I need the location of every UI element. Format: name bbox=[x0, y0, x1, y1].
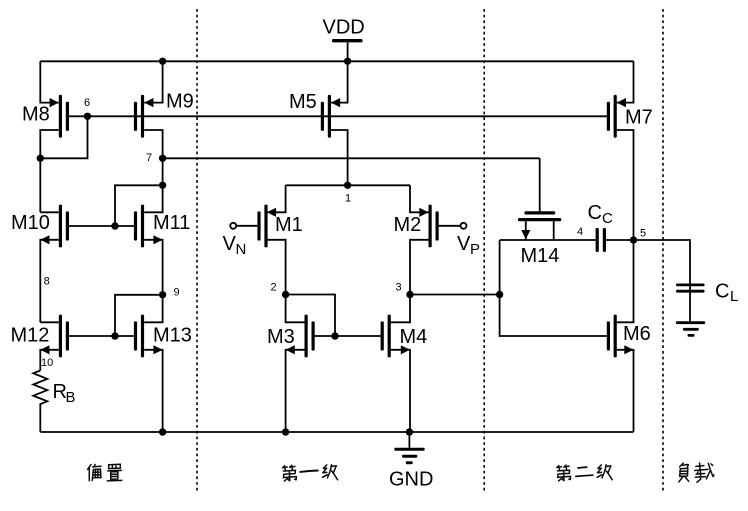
svg-text:N: N bbox=[236, 241, 247, 258]
svg-text:M12: M12 bbox=[11, 325, 50, 347]
junction bottom rail / M3 source bbox=[282, 428, 289, 435]
transistor M6 bbox=[607, 240, 651, 432]
wire VDD top rail bbox=[40, 60, 633, 62]
svg-text:M6: M6 bbox=[623, 323, 651, 345]
junction M8 drain / node 6 / M10 drain bbox=[37, 155, 44, 162]
junction node7/M11 drain/gate link bbox=[159, 182, 166, 189]
wire gate bus (gates of M8 M9 M5 M7) bbox=[69, 115, 608, 117]
svg-text:M13: M13 bbox=[153, 325, 192, 347]
transistor M4 bbox=[381, 295, 428, 433]
section label 第二级 (second stage) bbox=[557, 465, 612, 481]
node 3 junction bbox=[406, 291, 413, 298]
wire node 9 to M12 M13 gates bbox=[115, 295, 163, 336]
transistor M5 bbox=[289, 61, 348, 185]
junction bottom rail / M13 source bbox=[159, 428, 166, 435]
junction bottom rail / M4 source / GND bbox=[406, 428, 413, 435]
junction M10/M11 gates bbox=[111, 222, 118, 229]
svg-text:M1: M1 bbox=[275, 214, 303, 236]
node 2 junction bbox=[282, 291, 289, 298]
ground symbol GND bbox=[389, 432, 433, 491]
wire node 7 down to M11 drain bbox=[144, 158, 162, 212]
junction node3 line / M14-M6 branch bbox=[496, 291, 503, 298]
svg-text:V: V bbox=[457, 233, 471, 255]
svg-text:4: 4 bbox=[577, 226, 583, 238]
transistor M2 bbox=[394, 185, 439, 294]
svg-text:5: 5 bbox=[640, 228, 646, 240]
svg-text:M8: M8 bbox=[22, 104, 50, 126]
svg-text:3: 3 bbox=[396, 282, 402, 294]
capacitor CC bbox=[588, 202, 634, 252]
svg-text:2: 2 bbox=[271, 282, 277, 294]
capacitor CL bbox=[676, 281, 738, 306]
wire link to M10 M11 gates bbox=[115, 185, 163, 226]
svg-text:P: P bbox=[470, 241, 480, 258]
wire branch: node4 down to M6 gate bbox=[500, 240, 607, 336]
transistor M3 bbox=[267, 295, 315, 433]
wire node 2 to M3 M4 gates bbox=[286, 295, 335, 337]
svg-text:7: 7 bbox=[146, 152, 152, 164]
junction M12/M13 gates bbox=[111, 332, 118, 339]
input terminal VN bbox=[223, 223, 258, 258]
svg-text:M11: M11 bbox=[153, 212, 190, 234]
wire node 7 horizontal to M14 gate bbox=[163, 157, 540, 159]
node 1 junction bbox=[344, 182, 351, 189]
input terminal VP bbox=[439, 223, 480, 258]
svg-text:M3: M3 bbox=[267, 326, 295, 348]
transistor M8 bbox=[22, 61, 69, 212]
section label 第一级 (first stage) bbox=[283, 465, 338, 481]
node 6 junction bbox=[84, 113, 91, 120]
svg-text:L: L bbox=[730, 288, 738, 305]
svg-text:M7: M7 bbox=[625, 107, 653, 129]
section label 负载 (load) bbox=[679, 463, 714, 482]
transistor M14 (MOS capacitor) bbox=[518, 158, 561, 267]
transistor M12 bbox=[11, 315, 70, 371]
transistor M10 bbox=[11, 205, 69, 323]
svg-text:8: 8 bbox=[44, 276, 50, 288]
svg-text:GND: GND bbox=[389, 469, 433, 491]
transistor M7 bbox=[607, 61, 653, 240]
junction top rail / M9 source bbox=[159, 58, 166, 65]
wire M12 M13 gate wire bbox=[69, 335, 134, 337]
svg-text:M10: M10 bbox=[11, 212, 50, 234]
svg-text:C: C bbox=[588, 202, 602, 224]
junction M3/M4 gates bbox=[331, 332, 338, 339]
svg-text:C: C bbox=[602, 210, 613, 227]
dashed separator line 3 (second stage / load) bbox=[662, 9, 664, 491]
svg-text:6: 6 bbox=[84, 97, 90, 109]
svg-text:9: 9 bbox=[174, 287, 180, 299]
node 1 wire bbox=[286, 184, 410, 186]
svg-text:M9: M9 bbox=[166, 91, 194, 113]
VDD supply symbol bbox=[323, 17, 365, 62]
svg-text:M14: M14 bbox=[521, 245, 560, 267]
wire bottom ground rail bbox=[40, 431, 633, 433]
dashed separator line 2 (first stage / second stage) bbox=[483, 9, 485, 491]
transistor M13 bbox=[134, 295, 192, 432]
svg-text:M5: M5 bbox=[289, 91, 317, 113]
wire node 6 to M8 drain bbox=[40, 116, 87, 158]
ground symbol at CL bbox=[676, 321, 705, 337]
resistor RB bbox=[33, 371, 75, 433]
svg-text:C: C bbox=[715, 281, 729, 303]
junction top rail / VDD bbox=[344, 58, 351, 65]
transistor M9 bbox=[134, 61, 194, 158]
node 9 junction bbox=[159, 291, 166, 298]
wire M10 M11 gate wire bbox=[69, 225, 134, 227]
svg-text:10: 10 bbox=[41, 357, 53, 369]
transistor M1 bbox=[257, 185, 302, 294]
transistor M11 bbox=[134, 205, 191, 295]
svg-text:VDD: VDD bbox=[323, 17, 365, 39]
svg-text:1: 1 bbox=[345, 193, 351, 205]
section label 偏置 (bias) bbox=[88, 464, 122, 481]
wire node 3 to second stage bbox=[410, 294, 500, 296]
svg-text:M2: M2 bbox=[394, 214, 422, 236]
svg-text:M4: M4 bbox=[400, 326, 428, 348]
wire node 4 (M14 S/D to CC) bbox=[500, 239, 596, 241]
dashed separator line 1 (bias / first stage) bbox=[196, 9, 198, 491]
wire node 5 to load bbox=[634, 240, 691, 321]
svg-text:B: B bbox=[66, 389, 76, 406]
node 5 junction bbox=[630, 236, 637, 243]
svg-text:V: V bbox=[223, 233, 237, 255]
node 7 junction bbox=[159, 155, 166, 162]
wire M3 M4 gate wire bbox=[315, 335, 381, 337]
